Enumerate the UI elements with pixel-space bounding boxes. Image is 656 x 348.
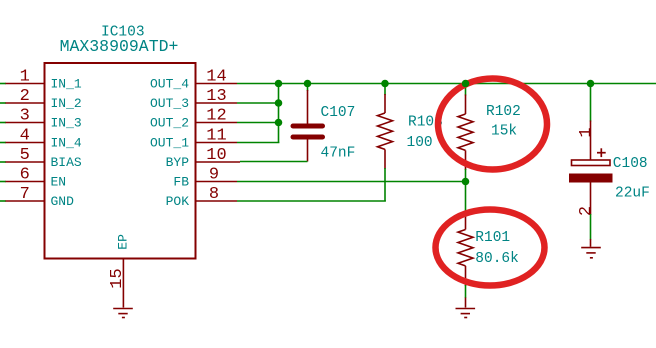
svg-text:1: 1 xyxy=(577,127,596,137)
resistor R101 xyxy=(458,182,473,308)
svg-text:OUT_1: OUT_1 xyxy=(150,136,189,151)
junction node C108 top xyxy=(587,80,595,88)
wire pin2 left xyxy=(0,102,6,104)
wire pin5 left xyxy=(0,161,6,163)
pin 2 IN_2 xyxy=(6,87,82,111)
svg-text:POK: POK xyxy=(166,194,190,209)
wire pin6 left xyxy=(0,181,6,183)
svg-text:10: 10 xyxy=(206,146,226,165)
pin 11 OUT_1 xyxy=(150,127,237,151)
label R103 xyxy=(408,114,443,130)
ground under C108 xyxy=(581,248,601,258)
svg-text:BIAS: BIAS xyxy=(51,155,82,170)
svg-text:11: 11 xyxy=(206,127,226,146)
pin 5 BIAS xyxy=(6,146,82,170)
resistor R102 xyxy=(458,84,473,182)
pin 15 EP xyxy=(108,234,131,308)
resistor R103 xyxy=(378,84,393,202)
svg-text:2: 2 xyxy=(20,87,30,106)
wire FB to divider xyxy=(237,181,466,183)
pin 1 IN_1 xyxy=(6,68,82,92)
pin 14 OUT_4 xyxy=(150,68,237,92)
op-amp/regulator IC103 body xyxy=(45,63,196,259)
svg-text:8: 8 xyxy=(209,185,219,204)
wire BYP to C107 xyxy=(240,161,308,163)
svg-text:9: 9 xyxy=(209,166,219,185)
junction node R103 top xyxy=(381,80,389,88)
svg-text:GND: GND xyxy=(51,194,75,209)
svg-text:1: 1 xyxy=(20,68,30,87)
svg-text:OUT_4: OUT_4 xyxy=(150,77,189,92)
svg-text:EP: EP xyxy=(116,234,131,250)
wire POK to R103 xyxy=(237,200,386,202)
svg-text:IN_3: IN_3 xyxy=(51,116,82,131)
pin 9 FB xyxy=(173,166,237,190)
label C107 xyxy=(321,105,356,121)
svg-text:IN_1: IN_1 xyxy=(51,77,82,92)
junction node R102 top xyxy=(462,80,470,88)
svg-text:15k: 15k xyxy=(491,124,517,140)
pin 6 EN xyxy=(6,166,67,190)
svg-text:R102: R102 xyxy=(486,104,521,120)
wire pin4 left xyxy=(0,142,6,144)
svg-text:22uF: 22uF xyxy=(615,185,650,201)
pin 12 OUT_2 xyxy=(150,107,237,131)
svg-text:IN_4: IN_4 xyxy=(51,136,82,151)
svg-text:12: 12 xyxy=(206,107,226,126)
capacitor C108 (electrolytic) xyxy=(569,84,613,247)
junction node OUT bus / pin12 xyxy=(275,119,283,127)
svg-text:OUT_2: OUT_2 xyxy=(150,116,189,131)
annotation circle around R102 xyxy=(438,79,547,170)
pin 10 BYP xyxy=(166,146,240,170)
junction node C107 top xyxy=(304,80,312,88)
ground under EP xyxy=(113,309,133,318)
label 22uF xyxy=(615,185,650,201)
svg-text:15: 15 xyxy=(108,268,127,288)
value label MAX38909ATD+ xyxy=(60,37,179,56)
pin 7 GND xyxy=(6,185,75,209)
svg-text:FB: FB xyxy=(173,175,189,190)
C108 plus sign xyxy=(597,148,606,157)
svg-text:7: 7 xyxy=(20,185,30,204)
svg-text:IN_2: IN_2 xyxy=(51,96,82,111)
label 100 xyxy=(407,135,433,151)
svg-text:EN: EN xyxy=(51,175,67,190)
label R102 xyxy=(486,104,521,120)
svg-text:MAX38909ATD+: MAX38909ATD+ xyxy=(60,37,179,56)
svg-text:5: 5 xyxy=(20,146,30,165)
label R101 xyxy=(475,230,510,246)
svg-text:13: 13 xyxy=(206,87,226,106)
junction node FB divider xyxy=(462,178,470,186)
svg-text:3: 3 xyxy=(20,107,30,126)
wire OUT_1 to bus xyxy=(237,142,279,144)
pin 13 OUT_3 xyxy=(150,87,237,111)
label 80.6k xyxy=(475,251,519,267)
svg-text:2: 2 xyxy=(577,206,596,216)
ground under R101 xyxy=(456,309,476,318)
pin 8 POK xyxy=(166,185,237,209)
capacitor C107 xyxy=(293,84,323,162)
wire OUT bus horizontal xyxy=(237,83,656,85)
svg-text:6: 6 xyxy=(20,166,30,185)
svg-text:OUT_3: OUT_3 xyxy=(150,96,189,111)
reference label IC103 xyxy=(101,24,145,40)
svg-text:4: 4 xyxy=(20,127,30,146)
wire pin1 left xyxy=(0,83,6,85)
wire OUT_2 to bus xyxy=(237,122,279,124)
svg-text:C108: C108 xyxy=(613,156,648,172)
wire pin7 left xyxy=(0,200,6,202)
C108 pin number 1 xyxy=(577,127,596,137)
wire OUT_3 to bus xyxy=(237,102,279,104)
svg-text:14: 14 xyxy=(206,68,226,87)
svg-text:100: 100 xyxy=(407,135,433,151)
pin 4 IN_4 xyxy=(6,127,82,151)
svg-text:47nF: 47nF xyxy=(321,146,356,162)
svg-text:80.6k: 80.6k xyxy=(475,251,519,267)
wire OUT bus vertical xyxy=(278,84,280,143)
svg-text:R101: R101 xyxy=(475,230,510,246)
junction node OUT bus / pin13 xyxy=(275,99,283,107)
svg-text:C107: C107 xyxy=(321,105,356,121)
label 15k xyxy=(491,124,517,140)
pin 3 IN_3 xyxy=(6,107,82,131)
junction node OUT bus / pin14 xyxy=(275,80,283,88)
label 47nF xyxy=(321,146,356,162)
wire pin3 left xyxy=(0,122,6,124)
C108 pin number 2 xyxy=(577,206,596,216)
svg-text:BYP: BYP xyxy=(166,155,190,170)
label C108 xyxy=(613,156,648,172)
annotation circle around R101 xyxy=(436,210,545,286)
